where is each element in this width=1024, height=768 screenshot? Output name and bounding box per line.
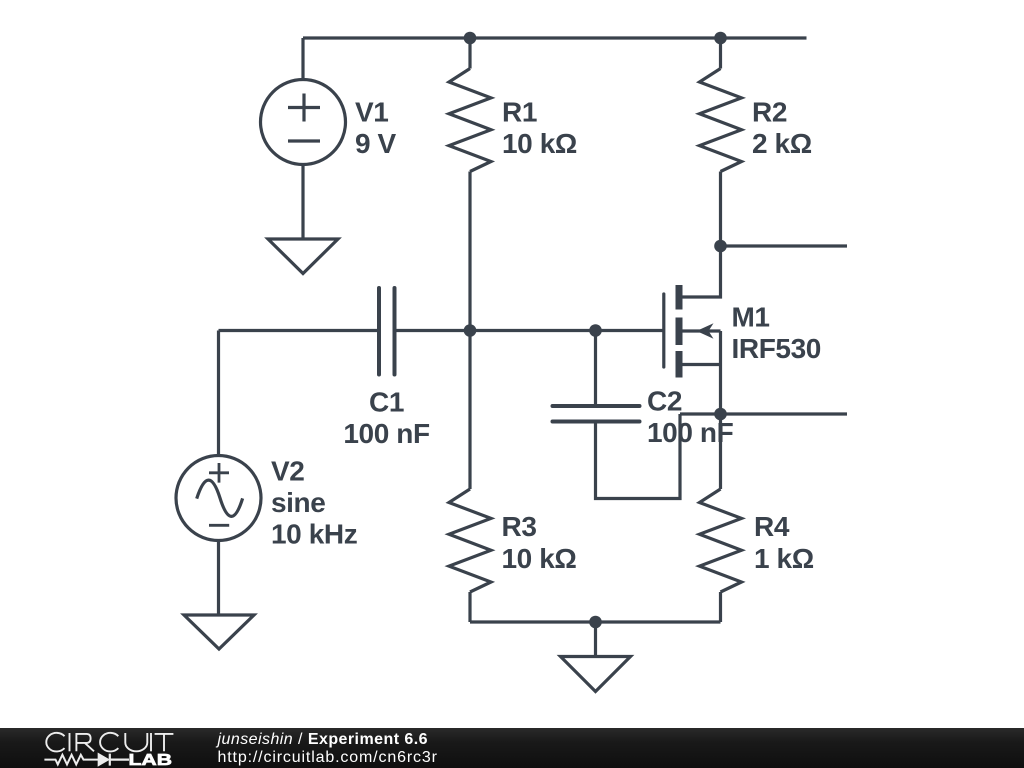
capacitor C2 (553, 331, 681, 499)
wire bottom rail (470, 620, 721, 623)
resistor R3 (449, 331, 491, 623)
voltage source V1 (261, 38, 346, 239)
logo letter U (125, 733, 147, 751)
svg-text:10 kΩ: 10 kΩ (502, 128, 577, 159)
V2 circle body (176, 456, 261, 541)
wire V1 bottom lead (301, 165, 304, 240)
footer bar (0, 728, 1024, 768)
svg-text:LAB: LAB (129, 752, 173, 768)
voltage source V2 (176, 331, 261, 616)
ground (V1) (268, 239, 338, 274)
node E (gate C2) (589, 324, 602, 337)
wire R4 top lead (719, 414, 722, 489)
V2 plus sign (209, 463, 229, 483)
svg-text:IRF530: IRF530 (732, 333, 821, 364)
node G (bottom ground) (589, 616, 602, 629)
label R4 value (754, 511, 814, 574)
wire R4 bottom lead (719, 592, 722, 622)
resistor R4 (700, 414, 742, 622)
logo letter C (100, 733, 118, 752)
svg-text:sine: sine (271, 487, 325, 518)
source tab (683, 331, 721, 414)
label V2 value (271, 456, 357, 550)
svg-text:C2: C2 (647, 386, 682, 417)
resistor R1 (449, 38, 491, 331)
logo letter I (150, 733, 152, 751)
svg-text:R4: R4 (754, 511, 790, 542)
wire C2 bottom route (596, 414, 681, 499)
node D (gate left) (464, 324, 477, 337)
R3 zigzag body (449, 489, 491, 592)
wire V2 bottom lead (217, 541, 220, 616)
node B (top R2) (714, 32, 727, 45)
wire top rail (303, 36, 807, 39)
svg-text:100 nF: 100 nF (647, 417, 734, 448)
V1 plus sign (288, 94, 320, 122)
R4 zigzag body (700, 489, 742, 592)
wire R3 top lead (468, 331, 471, 490)
svg-text:junseishin / Experiment 6.6: junseishin / Experiment 6.6 (216, 731, 428, 748)
label C2 value (647, 386, 734, 449)
body arrow wire (683, 329, 721, 332)
svg-text:R1: R1 (502, 97, 537, 128)
label R3 value (502, 511, 577, 574)
logo diode glyph (98, 754, 108, 766)
resistor R2 (700, 38, 742, 246)
label R2 value (752, 97, 812, 160)
wire R1 bottom lead (468, 172, 471, 331)
svg-text:C1: C1 (369, 387, 404, 418)
svg-text:http://circuitlab.com/cn6rc3r: http://circuitlab.com/cn6rc3r (218, 749, 438, 766)
logo resistor glyph (44, 755, 98, 765)
wire V1 top lead (301, 38, 304, 80)
wire C1 left lead (219, 329, 378, 332)
wire ground tap (594, 622, 597, 657)
wire R2 bottom lead (719, 172, 722, 247)
svg-text:10 kΩ: 10 kΩ (502, 543, 577, 574)
label C1 value (343, 387, 430, 450)
gate bar (662, 294, 665, 367)
label V1 value (355, 97, 397, 160)
svg-text:10 kHz: 10 kHz (271, 519, 357, 550)
wire gate node (397, 329, 664, 332)
svg-text:R2: R2 (752, 97, 787, 128)
logo letter C (46, 733, 64, 752)
logo letter I (69, 733, 71, 751)
wire R1 top lead (468, 38, 471, 69)
logo letter R (76, 734, 94, 751)
C1 plates (379, 288, 395, 375)
wire C2 top lead (594, 331, 597, 405)
svg-text:2 kΩ: 2 kΩ (752, 128, 812, 159)
R2 zigzag body (700, 69, 742, 172)
node A (top R1) (464, 32, 477, 45)
svg-text:V1: V1 (355, 97, 388, 128)
arrow of M1 body (697, 323, 714, 338)
V2 minus sign (209, 524, 229, 527)
label R1 value (502, 97, 577, 160)
V2 sine wave (197, 480, 243, 516)
logo CircuitLab (44, 733, 173, 768)
svg-text:V2: V2 (271, 456, 304, 487)
ground (bottom) (561, 657, 631, 692)
svg-text:R3: R3 (502, 511, 537, 542)
node F (source) (714, 408, 727, 421)
drain tab (683, 246, 721, 297)
node C (drain) (714, 240, 727, 253)
capacitor C1 (219, 288, 664, 375)
wire R3 bottom lead (468, 592, 471, 622)
svg-text:9 V: 9 V (355, 128, 397, 159)
C2 plates (553, 406, 640, 422)
transistor M1 (664, 246, 721, 414)
wire source node right (680, 412, 847, 415)
wire R2 top lead (719, 38, 722, 69)
R1 zigzag body (449, 69, 491, 172)
svg-text:100 nF: 100 nF (343, 418, 430, 449)
logo letter T (155, 734, 174, 751)
V1 minus sign (288, 139, 320, 142)
channel bars (676, 285, 683, 378)
V1 circle body (261, 80, 346, 165)
wire V2 top lead (217, 331, 220, 456)
svg-text:1 kΩ: 1 kΩ (754, 543, 814, 574)
svg-text:M1: M1 (732, 302, 770, 333)
label M1 value (732, 302, 821, 365)
ground (V2) (184, 615, 254, 649)
wire drain stub right (721, 244, 848, 247)
